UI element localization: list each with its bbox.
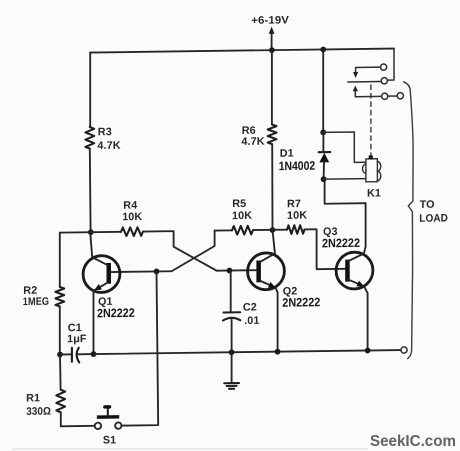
wire C2 to bottom rail	[231, 318, 233, 352]
svg-text:2N2222: 2N2222	[282, 295, 320, 309]
svg-text:10K: 10K	[232, 210, 252, 222]
wire R2 branch down	[59, 233, 61, 287]
svg-text:.01: .01	[244, 315, 259, 327]
wire left rail from bus to R3	[89, 53, 91, 127]
relay contact arrow up	[353, 85, 358, 96]
node supply/R6 junction	[269, 47, 275, 53]
svg-text:2N2222: 2N2222	[322, 236, 360, 250]
svg-text:LOAD: LOAD	[419, 212, 448, 224]
wire R3 to R4 node	[89, 149, 92, 233]
wire contact 3 to 4 link	[388, 95, 397, 97]
svg-text:R7: R7	[287, 198, 301, 210]
svg-text:K1: K1	[367, 187, 381, 199]
relay K1 coil	[363, 155, 382, 199]
svg-text:4.7K: 4.7K	[97, 140, 120, 152]
wire bus corner down to common contact	[388, 49, 395, 81]
svg-text:1μF: 1μF	[67, 333, 87, 345]
wire R4 to cross-coupling corner	[143, 231, 217, 272]
svg-text:10K: 10K	[122, 211, 142, 223]
node C1 left / R2 / R1	[57, 352, 63, 358]
resistor R6	[241, 124, 276, 147]
wire Q1 base lead	[111, 270, 172, 273]
wire R4 row left segment to R2 branch	[60, 231, 121, 234]
svg-text:1N4002: 1N4002	[279, 159, 316, 173]
resistor R7	[287, 198, 307, 234]
diode D1	[279, 147, 331, 173]
wire R7 lead	[273, 229, 288, 231]
relay contact arrow down	[353, 67, 358, 78]
wire D1 rail from bus	[322, 49, 324, 132]
node ground tap	[229, 349, 235, 355]
node supply/D1 junction	[320, 47, 326, 53]
svg-text:+6-19V: +6-19V	[251, 14, 289, 27]
wire relay coil bottom feed	[324, 178, 366, 181]
wire Q2 emitter down	[276, 288, 278, 352]
wire R5 lead	[215, 229, 232, 231]
label TO LOAD	[419, 199, 448, 225]
wire top supply bus	[90, 49, 394, 53]
svg-text:R4: R4	[123, 200, 137, 212]
wire Q2 base lead	[217, 269, 257, 272]
svg-text:1MEG: 1MEG	[23, 296, 49, 308]
transistor Q2	[248, 229, 321, 310]
svg-text:10K: 10K	[287, 210, 307, 222]
relay contact terminal 2 common	[381, 78, 387, 84]
svg-text:4.7K: 4.7K	[241, 136, 264, 148]
node Q3 emitter	[365, 348, 371, 354]
node Q2 emitter	[275, 349, 281, 355]
resistor R4	[121, 200, 143, 237]
wire R2 to C1 node	[59, 307, 61, 355]
wire R7 to Q3 base	[305, 229, 346, 269]
terminal open circle to load	[401, 347, 407, 353]
svg-text:330Ω: 330Ω	[26, 406, 51, 418]
svg-text:C2: C2	[243, 301, 257, 313]
resistor R3	[85, 126, 120, 152]
node Q2 base / C2	[227, 268, 233, 274]
ground	[224, 383, 239, 389]
node C1 right / Q1 emitter	[91, 351, 97, 357]
scan artifact line	[12, 448, 368, 450]
node Q1 base / switch riser	[154, 269, 160, 275]
switch S1	[95, 405, 122, 447]
resistor R2	[23, 284, 64, 308]
wire Q1 emitter down to C1 node	[93, 290, 95, 354]
svg-text:2N2222: 2N2222	[97, 306, 135, 320]
capacitor C2	[223, 301, 260, 327]
relay contact terminal 1	[381, 64, 387, 70]
wire contact 1 arm	[356, 66, 381, 68]
wire cross-coupling from R5 corner down to Q1 base node	[172, 231, 215, 272]
wire C2 branch from Q2 base node	[230, 270, 232, 312]
svg-text:SeekIC.com: SeekIC.com	[370, 433, 456, 450]
node R5/R6/R7/Q2 collector	[270, 227, 276, 233]
wire relay actuator dashed line	[370, 85, 372, 155]
wire R6 to center node	[271, 144, 273, 230]
capacitor C1	[60, 322, 94, 363]
relay contact terminal 4	[397, 93, 403, 99]
resistor R5	[232, 198, 253, 235]
wire R1 to S1	[61, 412, 95, 426]
relay contact terminal 3	[382, 93, 388, 99]
svg-text:R1: R1	[26, 392, 40, 404]
wire D1 top lead	[322, 132, 324, 152]
node R3/R4/Q1 collector	[88, 229, 94, 235]
wire Q3 collector jog to D1 rail	[325, 179, 366, 204]
node D1 bottom / Q3 collector / relay	[321, 176, 327, 182]
wire S1 to Q1 base riser	[122, 271, 159, 425]
wire Q3 emitter down	[364, 286, 368, 350]
transistor Q3	[322, 203, 373, 289]
wire R1 branch	[59, 355, 62, 390]
wire contact 3 arm	[355, 95, 381, 97]
svg-text:TO: TO	[420, 199, 435, 211]
wire ground drop	[231, 352, 233, 383]
power arrow +6-19V	[251, 14, 289, 50]
transistor Q1	[83, 232, 135, 321]
wire load brace	[404, 82, 413, 359]
wire bottom rail	[94, 350, 401, 354]
wire armature pivot line	[348, 81, 381, 83]
wire R6 rail from bus to R6	[271, 50, 273, 124]
svg-text:R5: R5	[232, 198, 246, 210]
wire D1 bottom lead	[323, 162, 325, 179]
svg-text:S1: S1	[103, 434, 116, 446]
svg-text:R3: R3	[98, 126, 112, 138]
node D1 top / relay feed	[320, 129, 326, 135]
wire R5 to center node	[253, 229, 273, 231]
wire relay coil top feed	[323, 132, 366, 163]
resistor R1	[26, 390, 65, 418]
svg-text:D1: D1	[280, 148, 294, 160]
